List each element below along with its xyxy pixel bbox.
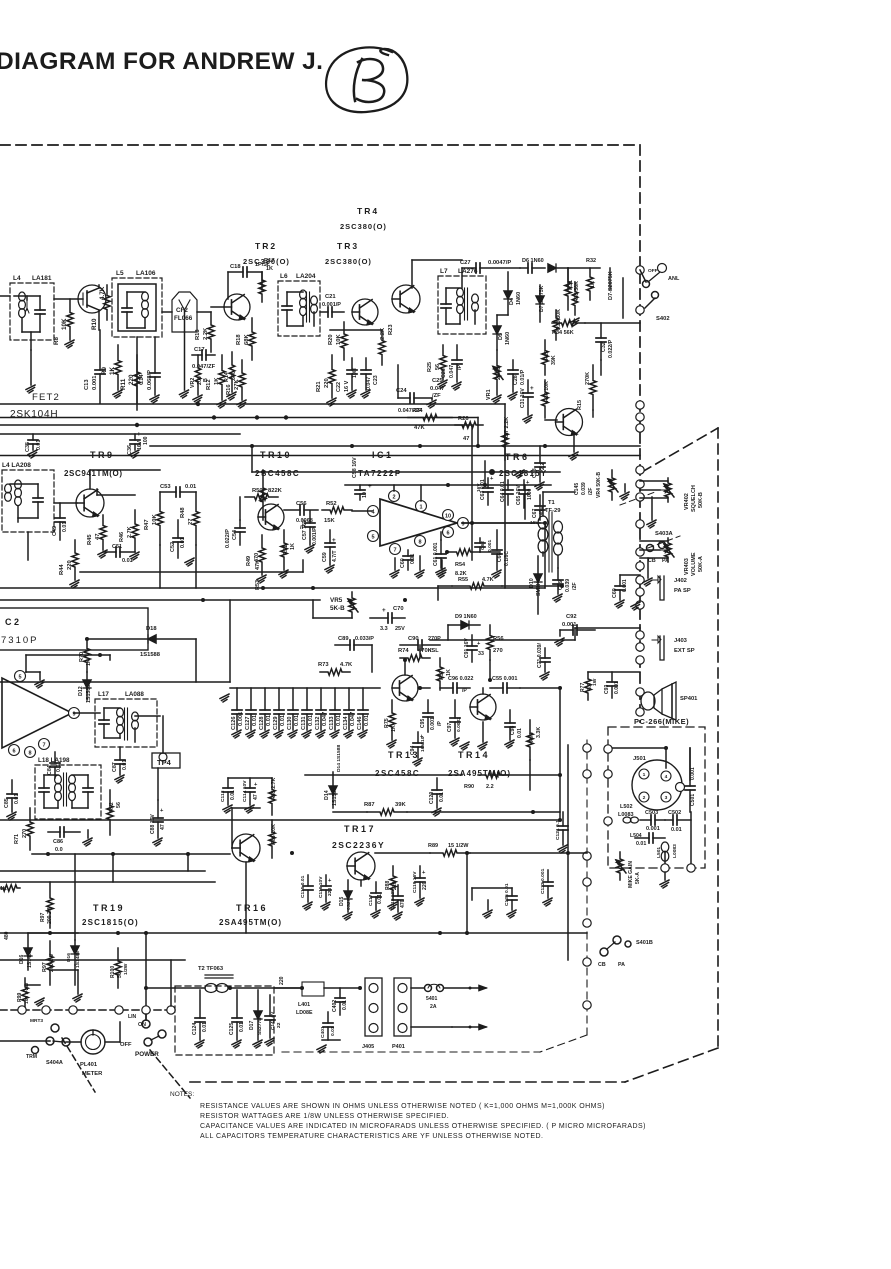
svg-text:C143 6V: C143 6V: [270, 1011, 275, 1030]
svg-text:1K: 1K: [266, 266, 273, 272]
svg-text:TR3: TR3: [337, 241, 359, 251]
svg-text:R74: R74: [398, 648, 409, 654]
svg-text:L501: L501: [656, 847, 662, 858]
svg-text:0.047/ZF: 0.047/ZF: [192, 364, 216, 370]
svg-text:R11: R11: [120, 378, 127, 390]
svg-text:3: 3: [665, 795, 668, 801]
svg-text:1S1588: 1S1588: [332, 788, 338, 806]
svg-text:3.3K: 3.3K: [536, 727, 542, 738]
svg-text:220: 220: [422, 881, 428, 890]
svg-text:0.001: 0.001: [562, 622, 577, 628]
svg-text:CB: CB: [648, 558, 656, 564]
svg-text:R26: R26: [458, 416, 469, 422]
svg-text:C56: C56: [296, 501, 307, 507]
svg-text:C31 16V: C31 16V: [520, 388, 526, 408]
svg-text:S404A: S404A: [46, 1060, 63, 1066]
svg-text:R18: R18: [236, 334, 242, 345]
svg-text:1N60: 1N60: [516, 292, 522, 305]
svg-text:C93: C93: [604, 684, 610, 694]
svg-text:2SK104H: 2SK104H: [10, 409, 58, 420]
svg-text:0.001: 0.001: [622, 579, 628, 592]
svg-text:R14: R14: [224, 372, 230, 382]
svg-text:C26: C26: [441, 368, 447, 378]
svg-text:D14: D14: [324, 790, 330, 800]
svg-text:R15: R15: [577, 400, 583, 410]
svg-text:C146: C146: [357, 716, 363, 730]
svg-text:J501: J501: [633, 756, 647, 762]
svg-text:4.7K: 4.7K: [482, 577, 494, 583]
svg-text:47: 47: [160, 824, 166, 830]
svg-text:0.01: 0.01: [636, 841, 646, 847]
svg-text:/2F: /2F: [588, 488, 594, 495]
svg-text:C51: C51: [112, 544, 122, 550]
svg-text:39K: 39K: [395, 802, 406, 808]
svg-text:10K: 10K: [336, 334, 342, 345]
svg-text:0.022/P: 0.022/P: [225, 529, 231, 548]
svg-text:10K: 10K: [61, 318, 68, 330]
svg-text:S402: S402: [656, 316, 670, 322]
svg-text:C28: C28: [513, 375, 519, 385]
svg-text:R85 2.7K: R85 2.7K: [271, 777, 277, 800]
svg-text:47: 47: [95, 534, 101, 540]
svg-text:5401: 5401: [426, 996, 437, 1002]
svg-text:LIN: LIN: [128, 1014, 137, 1020]
svg-text:L4 LA208: L4 LA208: [2, 462, 31, 469]
svg-text:C122 0.001: C122 0.001: [540, 868, 546, 894]
svg-text:L5: L5: [116, 270, 124, 277]
svg-text:ALL CAPACITORS TEMPERATURE: ALL CAPACITORS TEMPERATURE CHARACTERISTI…: [200, 1133, 543, 1140]
svg-text:C69: C69: [612, 588, 618, 598]
svg-text:R48: R48: [180, 507, 186, 518]
svg-text:2SC458C: 2SC458C: [375, 769, 420, 778]
svg-text:C65 16V: C65 16V: [516, 485, 522, 505]
svg-text:C121 0.1: C121 0.1: [555, 820, 561, 840]
svg-text:2SC1815Y: 2SC1815Y: [499, 469, 547, 478]
svg-text:0.01: 0.01: [294, 715, 300, 726]
svg-text:1: 1: [419, 504, 422, 510]
svg-text:6: 6: [446, 530, 449, 536]
svg-text:C23: C23: [373, 375, 379, 385]
svg-text:10/T: 10/T: [352, 367, 358, 378]
svg-text:CAPACITANCE VALUES ARE I: CAPACITANCE VALUES ARE INDICATED IN MICR…: [200, 1123, 646, 1130]
svg-text:R76: R76: [529, 732, 535, 742]
svg-text:L0083: L0083: [672, 844, 678, 858]
svg-text:EXT SP: EXT SP: [674, 648, 695, 654]
svg-text:C501: C501: [690, 794, 696, 806]
svg-text:680: 680: [231, 371, 237, 380]
svg-text:R47: R47: [144, 519, 150, 530]
svg-text:R55: R55: [458, 577, 468, 583]
svg-text:POWER: POWER: [135, 1051, 159, 1058]
svg-text:VR5: VR5: [330, 597, 343, 604]
svg-text:0.01: 0.01: [439, 792, 445, 802]
svg-text:C62: C62: [480, 541, 486, 550]
svg-text:C66: C66: [497, 552, 503, 562]
svg-text:0.01/P: 0.01/P: [520, 369, 526, 385]
svg-text:CF2: CF2: [176, 307, 188, 314]
svg-text:+: +: [137, 431, 141, 438]
svg-text:R13: R13: [195, 329, 201, 340]
svg-text:R34 56K: R34 56K: [552, 330, 574, 336]
svg-text:270P: 270P: [428, 636, 441, 642]
svg-text:15K: 15K: [324, 518, 335, 524]
svg-text:R89: R89: [428, 843, 438, 849]
svg-text:0.001: 0.001: [646, 826, 660, 832]
svg-text:56: 56: [116, 802, 122, 808]
svg-text:VR402: VR402: [684, 493, 690, 510]
svg-text:822K: 822K: [268, 488, 283, 494]
svg-text:/P: /P: [462, 688, 467, 694]
svg-text:R29: R29: [544, 350, 550, 360]
svg-text:C125: C125: [229, 1023, 235, 1035]
svg-text:C18: C18: [230, 264, 241, 270]
svg-text:TR19: TR19: [93, 903, 125, 913]
svg-text:1S1488: 1S1488: [27, 950, 33, 968]
svg-text:4: 4: [665, 774, 668, 780]
svg-text:FET2: FET2: [32, 392, 60, 403]
svg-text:OFF: OFF: [648, 268, 658, 274]
svg-text:C401: C401: [320, 1026, 326, 1038]
svg-text:R87: R87: [364, 802, 375, 808]
svg-text:TR4: TR4: [357, 206, 379, 216]
svg-text:0.01: 0.01: [230, 790, 236, 800]
svg-text:PA SP: PA SP: [674, 588, 691, 594]
svg-text:C503: C503: [645, 810, 658, 816]
svg-text:MRT3: MRT3: [30, 1018, 43, 1024]
svg-text:0.01: 0.01: [252, 715, 258, 726]
svg-text:LA204: LA204: [296, 273, 316, 280]
svg-text:1K: 1K: [391, 725, 397, 732]
svg-text:C97: C97: [447, 722, 453, 732]
svg-text:0.01: 0.01: [671, 827, 682, 833]
svg-text:2SC380(O): 2SC380(O): [340, 222, 387, 231]
svg-text:+: +: [382, 607, 386, 614]
svg-text:15 1/2W: 15 1/2W: [448, 843, 469, 849]
svg-text:2.2: 2.2: [486, 784, 494, 790]
svg-text:1N60: 1N60: [505, 332, 511, 345]
svg-text:0.01: 0.01: [202, 1022, 208, 1032]
svg-text:R8: R8: [53, 336, 60, 345]
svg-text:0.068/P: 0.068/P: [147, 370, 153, 390]
svg-text:C59: C59: [322, 552, 328, 562]
svg-text:0.047: 0.047: [449, 365, 455, 378]
svg-text:R97: R97: [40, 912, 46, 922]
svg-text:16V: 16V: [476, 483, 482, 492]
svg-text:C60: C60: [400, 558, 406, 568]
svg-text:4.7K: 4.7K: [99, 286, 106, 300]
svg-text:SM1K1: SM1K1: [536, 578, 542, 596]
svg-text:27: 27: [188, 519, 194, 525]
svg-text:9: 9: [72, 711, 75, 717]
svg-text:D14 1S1588: D14 1S1588: [336, 745, 342, 772]
svg-text:3.3: 3.3: [380, 626, 388, 632]
svg-text:PC-266(MIKE): PC-266(MIKE): [634, 717, 689, 726]
svg-text:L7: L7: [440, 268, 448, 275]
svg-text:R32: R32: [586, 258, 596, 264]
svg-text:R27 2.2K: R27 2.2K: [504, 417, 510, 440]
svg-text:C132: C132: [315, 716, 321, 730]
svg-text:C2: C2: [5, 617, 22, 627]
svg-text:0.001/P: 0.001/P: [322, 302, 341, 308]
svg-text:0.047: 0.047: [322, 712, 328, 726]
svg-text:2SC2236Y: 2SC2236Y: [332, 840, 385, 850]
svg-text:7: 7: [393, 547, 396, 553]
svg-text:S5277B: S5277B: [257, 1017, 263, 1035]
svg-text:C49: C49: [52, 526, 58, 536]
svg-text:R70: R70: [79, 652, 85, 662]
svg-text:TR16: TR16: [236, 903, 268, 913]
svg-text:/2F: /2F: [572, 582, 578, 590]
svg-text:TR17: TR17: [344, 824, 376, 834]
svg-text:0.001: 0.001: [614, 681, 620, 694]
svg-text:/P: /P: [437, 721, 443, 726]
svg-text:0.0047/P: 0.0047/P: [488, 260, 511, 266]
svg-text:R72: R72: [109, 802, 115, 812]
svg-text:0.01: 0.01: [364, 715, 370, 726]
svg-text:L401: L401: [298, 1002, 310, 1008]
svg-text:0S29?L: 0S29?L: [346, 893, 352, 910]
svg-text:LD08E: LD08E: [296, 1010, 313, 1016]
svg-text:C27: C27: [460, 260, 471, 266]
svg-text:TR2: TR2: [255, 241, 277, 251]
svg-text:5K-B: 5K-B: [330, 605, 345, 612]
svg-text:C124: C124: [192, 1023, 198, 1035]
svg-text:5: 5: [371, 534, 374, 540]
svg-text:50K-A: 50K-A: [698, 556, 704, 572]
svg-text:10: 10: [445, 513, 451, 519]
svg-text:D6 1N60: D6 1N60: [522, 258, 544, 264]
svg-text:C54: C54: [232, 529, 238, 540]
svg-text:R35 56K: R35 56K: [574, 281, 580, 302]
svg-text:LA088: LA088: [125, 691, 144, 698]
svg-text:L18 LA198: L18 LA198: [38, 757, 70, 764]
svg-text:L502: L502: [620, 804, 633, 810]
svg-text:RESISTOR WATTAGES ARE 1/: RESISTOR WATTAGES ARE 1/8W UNLESS OTHERW…: [200, 1113, 449, 1120]
svg-text:25V: 25V: [395, 626, 405, 632]
svg-text:T1: T1: [548, 500, 556, 506]
svg-text:R54: R54: [455, 562, 466, 568]
svg-text:R33 30K: R33 30K: [556, 309, 562, 330]
svg-text:R56: R56: [493, 636, 504, 642]
svg-text:0.01: 0.01: [122, 760, 128, 770]
svg-text:10: 10: [362, 492, 368, 498]
svg-text:1K: 1K: [109, 366, 116, 375]
svg-text:C32: C32: [601, 342, 607, 352]
svg-text:47: 47: [463, 436, 469, 442]
svg-text:C17: C17: [194, 347, 205, 353]
svg-text:R24: R24: [412, 408, 423, 414]
svg-text:C98: C98: [510, 725, 516, 735]
svg-text:5: 5: [18, 674, 21, 680]
svg-text:/P: /P: [457, 365, 463, 370]
svg-text:C114 10V: C114 10V: [242, 780, 248, 802]
svg-text:C119 16V: C119 16V: [412, 871, 418, 893]
svg-text:C116 10V: C116 10V: [318, 876, 324, 898]
svg-text:+: +: [530, 385, 534, 392]
svg-text:7310P: 7310P: [1, 635, 38, 646]
svg-text:C96 0.022: C96 0.022: [448, 676, 473, 682]
svg-text:50K-B: 50K-B: [698, 492, 704, 508]
svg-text:R21: R21: [316, 381, 322, 392]
svg-text:480: 480: [4, 931, 10, 940]
svg-text:220: 220: [67, 560, 73, 570]
svg-text:C128: C128: [259, 716, 265, 730]
svg-text:/ZF: /ZF: [432, 393, 441, 399]
svg-text:RESISTANCE VALUES ARE SHOWN: RESISTANCE VALUES ARE SHOWN IN OHMS UNLE…: [200, 1103, 605, 1110]
svg-text:LA181: LA181: [32, 275, 52, 282]
svg-text:VR1: VR1: [486, 389, 492, 400]
svg-text:0.047: 0.047: [350, 712, 356, 726]
svg-text:22: 22: [276, 1022, 282, 1028]
svg-text:8: 8: [28, 750, 31, 756]
svg-text:R49: R49: [246, 556, 252, 566]
svg-text:TR14: TR14: [458, 750, 490, 760]
svg-text:FL066: FL066: [174, 315, 193, 322]
svg-text:C402: C402: [332, 1000, 338, 1012]
svg-text:DIAGRAM FOR ANDREW J.: DIAGRAM FOR ANDREW J.: [0, 48, 323, 75]
svg-text:0.01: 0.01: [266, 715, 272, 726]
svg-text:2SC380(O): 2SC380(O): [243, 257, 290, 266]
svg-text:C58 16V: C58 16V: [352, 457, 358, 478]
svg-text:D5: D5: [498, 333, 504, 340]
svg-text:0.01: 0.01: [342, 1000, 348, 1010]
svg-text:C35: C35: [25, 442, 31, 452]
svg-text:D7 S2075K: D7 S2075K: [539, 285, 545, 312]
svg-text:NOTES:: NOTES:: [170, 1091, 194, 1098]
svg-text:220: 220: [128, 374, 135, 385]
svg-text:100: 100: [143, 436, 149, 445]
svg-text:R10: R10: [91, 318, 98, 330]
svg-text:TP4: TP4: [157, 758, 172, 767]
svg-text:OFF: OFF: [120, 1042, 132, 1048]
svg-text:MIKE GAIN: MIKE GAIN: [628, 861, 634, 888]
svg-text:C25: C25: [432, 378, 443, 384]
svg-text:C145: C145: [574, 483, 580, 495]
svg-text:27K: 27K: [234, 379, 240, 390]
svg-text:0.033/P: 0.033/P: [355, 636, 374, 642]
svg-text:0.01: 0.01: [377, 894, 383, 904]
svg-text:R46: R46: [119, 532, 125, 542]
svg-text:0.01: 0.01: [36, 440, 42, 450]
svg-text:1K: 1K: [86, 659, 92, 666]
svg-text:1S1588: 1S1588: [140, 652, 161, 658]
svg-text:C126: C126: [231, 716, 237, 730]
svg-text:VOLUME: VOLUME: [691, 552, 697, 576]
svg-text:J402: J402: [674, 578, 687, 584]
svg-text:4.7K: 4.7K: [340, 662, 353, 668]
svg-text:C84: C84: [47, 765, 53, 775]
svg-text:0.039: 0.039: [581, 482, 587, 495]
svg-text:PL401: PL401: [80, 1062, 98, 1068]
svg-text:470: 470: [400, 899, 406, 908]
svg-text:0.01: 0.01: [336, 715, 342, 726]
svg-text:C92: C92: [566, 614, 577, 620]
svg-text:C133: C133: [329, 716, 335, 730]
svg-text:D7-S2075K: D7-S2075K: [608, 271, 614, 300]
svg-text:0.039: 0.039: [565, 579, 571, 592]
svg-text:0.001: 0.001: [238, 712, 244, 726]
svg-text:+: +: [368, 483, 372, 490]
svg-text:4.7/T: 4.7/T: [332, 550, 338, 562]
svg-text:C120: C120: [429, 792, 435, 804]
svg-text:R30 10K: R30 10K: [544, 381, 550, 402]
svg-text:270: 270: [493, 648, 503, 654]
svg-text:7: 7: [42, 742, 45, 748]
svg-text:0.01: 0.01: [239, 1022, 245, 1032]
svg-text:1000: 1000: [527, 489, 533, 500]
svg-text:L4: L4: [13, 275, 21, 282]
svg-text:C71 0.039/: C71 0.039/: [537, 642, 543, 668]
svg-text:C90: C90: [408, 636, 419, 642]
svg-text:270: 270: [22, 829, 28, 838]
svg-text:1K: 1K: [446, 669, 452, 676]
svg-text:TR6: TR6: [505, 452, 530, 462]
svg-text:2: 2: [643, 795, 646, 801]
svg-text:CB: CB: [598, 962, 606, 968]
svg-text:0.001: 0.001: [690, 767, 696, 780]
svg-text:0.1/8C: 0.1/8C: [504, 551, 510, 566]
svg-text:1K: 1K: [290, 543, 296, 550]
svg-text:C70: C70: [393, 606, 404, 612]
svg-text:C55 0.001: C55 0.001: [492, 676, 517, 682]
svg-text:C129: C129: [273, 716, 279, 730]
svg-text:1: 1: [643, 772, 646, 778]
svg-text:VR2: VR2: [190, 378, 196, 388]
svg-text:C64 0.01: C64 0.01: [500, 481, 506, 502]
svg-text:0.022/P: 0.022/P: [608, 339, 614, 358]
svg-text:0.01: 0.01: [180, 537, 186, 548]
svg-text:0.001: 0.001: [92, 375, 98, 390]
svg-text:2SC380(O): 2SC380(O): [325, 257, 372, 266]
svg-text:9: 9: [461, 521, 464, 527]
svg-text:39K: 39K: [551, 355, 557, 365]
svg-text:TRM: TRM: [26, 1054, 37, 1060]
svg-text:T2 TF063: T2 TF063: [198, 966, 224, 972]
svg-text:C87: C87: [112, 762, 118, 772]
svg-text:D12: D12: [78, 686, 84, 696]
svg-text:C14: C14: [139, 374, 145, 385]
svg-text:1S1588: 1S1588: [86, 685, 92, 703]
svg-text:TR13: TR13: [388, 750, 420, 760]
svg-text:R86 10K: R86 10K: [271, 824, 277, 845]
svg-text:LA106: LA106: [136, 270, 156, 277]
svg-text:R99: R99: [17, 992, 23, 1002]
svg-text:J405: J405: [362, 1044, 374, 1050]
svg-text:1/2W: 1/2W: [123, 963, 129, 975]
svg-text:TA7222P: TA7222P: [358, 469, 402, 478]
svg-text:C67: C67: [532, 508, 538, 518]
svg-text:2.7K: 2.7K: [127, 526, 133, 538]
svg-text:56: 56: [117, 972, 123, 978]
svg-text:220: 220: [279, 976, 285, 985]
svg-text:P401: P401: [392, 1044, 405, 1050]
svg-text:PA: PA: [662, 558, 669, 564]
svg-text:R73: R73: [318, 662, 329, 668]
svg-text:C13: C13: [84, 379, 90, 390]
svg-text:0.01: 0.01: [62, 522, 68, 532]
svg-text:C22: C22: [336, 382, 342, 392]
svg-text:TR9: TR9: [90, 450, 115, 460]
svg-text:20KB: 20KB: [496, 366, 502, 380]
svg-text:R25: R25: [427, 362, 433, 372]
svg-text:C127: C127: [245, 716, 251, 730]
svg-text:C134: C134: [343, 716, 349, 730]
svg-text:S403A: S403A: [655, 531, 674, 537]
svg-text:0.047: 0.047: [430, 386, 445, 392]
svg-text:2SC1815(O): 2SC1815(O): [82, 918, 139, 927]
svg-text:0.01: 0.01: [517, 728, 523, 738]
svg-text:1W: 1W: [592, 678, 598, 686]
